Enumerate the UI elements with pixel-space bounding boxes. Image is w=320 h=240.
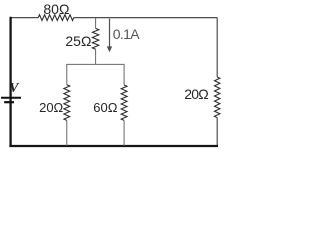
label 0.1 A (113, 27, 130, 41)
current arrow 0.1 A stem (109, 19, 111, 48)
wire top (R80 to right corner) (74, 17, 217, 19)
wire inner right branch (R60 to bottom wire) (123, 120, 125, 146)
wire right (R20 right to bottom corner) (216, 118, 218, 146)
current arrow 0.1 A head (107, 46, 112, 52)
wire inner left branch (node to R20L) (66, 64, 68, 85)
battery V short plate (4, 101, 14, 103)
wire top (left segment to R80) (10, 17, 39, 19)
label 25ohm (65, 34, 91, 48)
wire bottom (9, 145, 218, 147)
resistor R60 60ohm zigzag (121, 85, 127, 120)
wire inner left branch (R20L to bottom wire) (66, 120, 68, 146)
label V battery (9, 81, 18, 95)
resistor R80 80ohm zigzag (38, 15, 74, 21)
label 20ohm inner (39, 101, 63, 114)
label 80ohm (43, 2, 69, 16)
label 60ohm (93, 101, 117, 114)
wire inner box top (67, 63, 124, 65)
wire inner right branch (node to R60) (123, 64, 125, 85)
wire right (top corner to R20 right) (216, 18, 218, 77)
resistor R20 right 20ohm zigzag (215, 77, 220, 118)
wire left (9, 17, 11, 147)
resistor R25 25ohm zigzag (92, 28, 98, 49)
battery V long plate (1, 97, 21, 99)
wire middle branch (R25 to inner node) (95, 49, 97, 64)
label 20ohm right (184, 87, 208, 101)
wire middle branch (top wire to R25) (95, 18, 97, 28)
resistor R20 left 20ohm zigzag (64, 85, 70, 121)
